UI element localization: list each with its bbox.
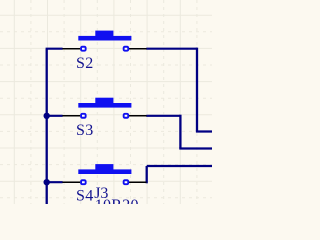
S3 pin 2 terminal [124,114,129,118]
wire: S2 left segment from bus corner to pin lead [46,48,63,50]
wire: S3 net vertical drop [179,115,181,149]
S3 body plunger bump [95,98,113,104]
S2 pin 2 lead [129,48,147,50]
wire: S2 right segment to right-side corner [146,48,197,50]
wire: S3 net horizontal exit to right edge [179,147,212,149]
svg-text:S3: S3 [76,122,94,139]
S2 pin 2 terminal [124,47,129,51]
S4 pin 1 lead [62,181,80,183]
S3 pin 1 lead [62,115,80,117]
junction on bus at S3 [44,113,50,119]
wire: S2 net horizontal exit to right edge [196,130,212,132]
svg-text:10R20: 10R20 [95,197,139,204]
S2 pin 1 terminal [81,47,86,51]
switch S2 [62,31,146,72]
S2 body bar [78,36,131,41]
S3 body bar [78,103,131,108]
junction on bus at S4 [44,179,50,185]
S4 body bar [78,169,131,174]
wire: right vertical drop from S2 net [196,48,198,132]
S2 pin 1 lead [62,48,80,50]
S4 pin 2 terminal [124,180,129,184]
S4 body plunger bump [95,164,113,170]
S2 body plunger bump [95,31,113,37]
S4 pin 1 terminal [81,180,86,184]
switch S4 [62,164,146,204]
wire: S4 net horizontal exit to right edge [147,165,212,167]
svg-text:S4: S4 [76,187,94,204]
svg-text:S2: S2 [76,55,94,72]
wire: S3 left segment from bus junction to pin lead [47,115,63,117]
wire: S3 right segment to corner [146,115,180,117]
S3 pin 1 terminal [81,114,86,118]
wire: S4 net vertical rise from pin lead corner [146,166,148,183]
wire: S4 left segment from bus junction to pin lead [47,181,63,183]
switch S3 [62,98,146,139]
S4 pin 2 lead [129,181,147,183]
S3 pin 2 lead [129,115,147,117]
wire: left bus vertical from S2 corner down off bottom edge [46,49,48,204]
